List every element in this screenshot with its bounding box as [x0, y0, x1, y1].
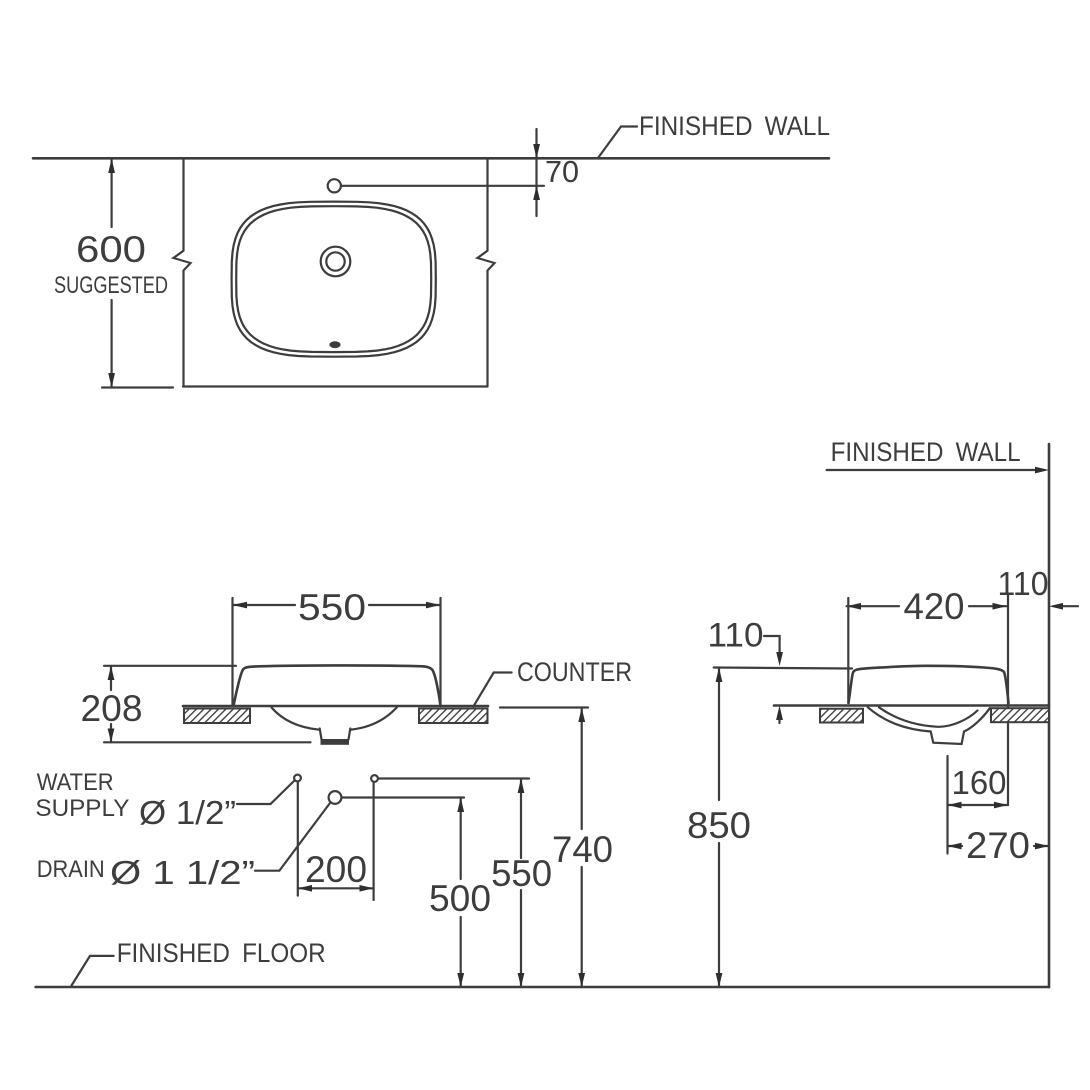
counter section hatch right (side) [991, 708, 1049, 722]
svg-text:DRAIN: DRAIN [37, 856, 105, 883]
wire: 550 extension lines [231, 598, 233, 705]
dimension 200 [297, 783, 299, 896]
svg-text:208: 208 [81, 688, 143, 729]
bowl outer line (side) [868, 707, 990, 744]
dimension 850 [718, 668, 720, 801]
dimension 208 [104, 665, 236, 667]
dimension 500 [460, 798, 462, 880]
svg-text:WATER: WATER [37, 769, 114, 796]
counter section hatch left (front) [184, 709, 250, 724]
drain nut dark (front) [321, 739, 350, 745]
wire: finished wall line (side) [1048, 444, 1051, 987]
sink body outline (front) [234, 665, 441, 706]
svg-text:SUGGESTED: SUGGESTED [54, 272, 168, 299]
water supply hole left (front) [294, 775, 301, 782]
wire: leader water supply [237, 781, 295, 805]
dimension 160 [948, 804, 1009, 806]
sink body outline (side) [849, 666, 1009, 703]
wire: drain center extension (side) [946, 756, 948, 854]
wire: counter level extension to 740 [500, 706, 588, 708]
svg-text:110: 110 [998, 565, 1049, 602]
wire: faucet hole reference line [342, 185, 545, 187]
wire: leader counter [473, 673, 511, 707]
dimension 550 line [233, 604, 296, 606]
svg-text:420: 420 [904, 586, 965, 627]
water supply hole right (front) [371, 775, 378, 782]
wire: leader to finished wall (plan) [598, 127, 637, 159]
svg-text:COUNTER: COUNTER [517, 657, 632, 687]
counter section hatch left (side) [820, 709, 863, 723]
faucet hole (plan) [328, 179, 341, 192]
wire: drain reference line to 500 dim [342, 796, 464, 798]
svg-text:Ø 1 1/2”: Ø 1 1/2” [110, 854, 255, 891]
dimension 270 [948, 845, 963, 847]
arrow down 600 [108, 373, 115, 388]
counter top line (front) [183, 705, 488, 708]
wire: leader underline to wall with arrow [827, 469, 1044, 471]
svg-text:FINISHED WALL: FINISHED WALL [831, 437, 1021, 467]
counter slab (plan) right edge with break [478, 159, 495, 386]
svg-text:160: 160 [952, 764, 1007, 801]
svg-text:110: 110 [708, 617, 764, 655]
counter slab (plan) left edge with break [174, 159, 191, 386]
overflow slot (plan) [329, 341, 340, 348]
dimension 110 at wall [1054, 605, 1078, 607]
dimension 740 [581, 708, 583, 830]
wire: rim level extension (side) [714, 668, 852, 669]
wire: extension of counter bottom to dim [102, 386, 173, 388]
svg-text:FINISHED FLOOR: FINISHED FLOOR [117, 938, 326, 968]
bowl under counter right arc (front) [351, 708, 396, 730]
wire: supply reference line to 550 dim [379, 777, 530, 779]
svg-text:SUPPLY: SUPPLY [35, 795, 129, 822]
drain fitting outer circle (plan) [321, 247, 351, 277]
dimension 70 line [535, 129, 537, 216]
wire: finished floor line [36, 986, 1049, 989]
basin rim outer (plan) [232, 202, 436, 357]
svg-text:600: 600 [76, 229, 146, 270]
drain tailpiece (front) [320, 729, 351, 740]
drain fitting inner circle (plan) [326, 252, 344, 270]
wire: finished wall line (plan) [33, 157, 829, 160]
dimension 420 [847, 605, 899, 607]
svg-text:270: 270 [966, 825, 1030, 866]
arrow down to wall (70) [533, 144, 540, 158]
counter slab (plan) bottom edge [183, 385, 488, 387]
svg-text:FINISHED WALL: FINISHED WALL [639, 111, 830, 141]
svg-text:740: 740 [552, 829, 613, 870]
counter top line (side) [774, 704, 1049, 707]
svg-text:200: 200 [305, 849, 367, 890]
counter section hatch right (front) [419, 709, 488, 724]
svg-text:Ø 1/2”: Ø 1/2” [139, 794, 236, 831]
drain stub circle (front) [329, 791, 342, 804]
svg-text:500: 500 [429, 878, 491, 919]
svg-text:70: 70 [545, 154, 579, 189]
wire: leader finished floor [72, 956, 114, 986]
svg-text:850: 850 [687, 805, 751, 846]
svg-text:550: 550 [491, 853, 552, 894]
wire: 420 extension lines [847, 598, 849, 703]
dimension 550 vertical [520, 779, 522, 859]
wire: leader drain [255, 803, 330, 871]
svg-text:550: 550 [298, 587, 366, 628]
arrow up 600 [108, 159, 115, 174]
arrow up to faucet line (70) [533, 186, 540, 200]
basin rim inner (plan) [236, 206, 431, 352]
bowl under counter left arc (front) [272, 708, 319, 730]
bowl inner line (side) [879, 707, 978, 727]
dimension 600 SUGGESTED line [110, 159, 112, 228]
